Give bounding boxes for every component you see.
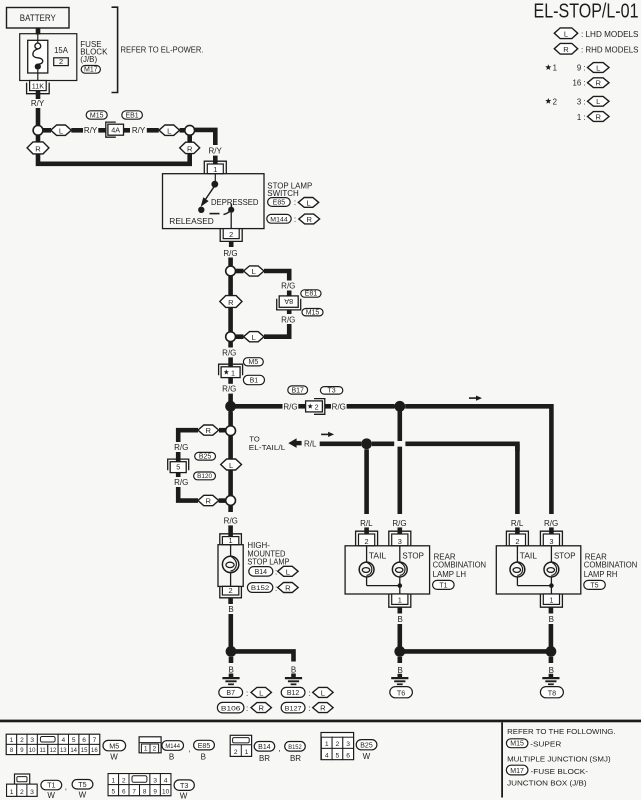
svg-text:,: , — [65, 782, 67, 791]
svg-text::: : — [308, 704, 310, 713]
svg-text:4: 4 — [325, 752, 329, 759]
svg-text:TAIL: TAIL — [520, 551, 538, 560]
svg-text:R/L: R/L — [304, 439, 317, 448]
svg-text:3 :: 3 : — [577, 97, 586, 106]
wire R/Y label segment — [71, 128, 83, 133]
svg-text:11K: 11K — [32, 82, 44, 91]
svg-text:R: R — [320, 704, 326, 713]
svg-text:6: 6 — [122, 788, 126, 795]
wire stub T8 ground — [549, 657, 554, 663]
wire R/G from J1 to *2 — [231, 404, 283, 409]
svg-text:R: R — [228, 298, 234, 307]
svg-text:R: R — [258, 704, 264, 713]
svg-text:B7: B7 — [226, 690, 235, 697]
svg-text:M15: M15 — [90, 112, 104, 119]
wire R/G up-loop to 8A connector — [264, 271, 289, 281]
svg-text:L: L — [564, 29, 568, 38]
junction J4 dot — [226, 646, 237, 657]
svg-text:R/G: R/G — [224, 516, 238, 525]
svg-text:R/G: R/G — [222, 385, 236, 394]
wire B from LH lamp — [397, 607, 402, 613]
switch released contact dot — [198, 207, 204, 213]
switch contact from pin 1 — [214, 174, 216, 181]
rear combination lamp RH box — [496, 546, 581, 594]
svg-text:EB1: EB1 — [125, 112, 138, 119]
connector detail M5 16-pin — [6, 734, 99, 754]
svg-text:B152: B152 — [288, 744, 302, 751]
junction J2 dot — [394, 401, 405, 412]
svg-text:11: 11 — [39, 748, 46, 754]
svg-text:2: 2 — [553, 97, 557, 106]
svg-text:R/G: R/G — [281, 282, 295, 291]
label M5 oval — [103, 740, 126, 750]
connector detail B25 6-pin — [321, 733, 354, 760]
svg-text:W: W — [110, 752, 118, 761]
svg-text:3: 3 — [30, 789, 34, 796]
svg-text:7: 7 — [132, 788, 136, 795]
svg-text:M5: M5 — [249, 359, 259, 366]
svg-text:TAIL: TAIL — [369, 551, 387, 560]
wire R/Y from 11K — [36, 91, 41, 99]
main wire C to D with hexagon R — [228, 276, 233, 332]
svg-text:3: 3 — [346, 741, 350, 748]
svg-text:4A: 4A — [111, 126, 120, 135]
label T5 oval — [584, 580, 606, 589]
svg-text:5: 5 — [72, 737, 76, 744]
svg-text:3: 3 — [30, 737, 34, 744]
svg-text:12: 12 — [50, 748, 57, 754]
ground T8 — [542, 677, 559, 679]
connector *2 — [314, 399, 325, 415]
svg-text:E81: E81 — [305, 291, 318, 298]
connector detail B14 2-pin — [230, 735, 251, 756]
connector label EB1 oval — [122, 111, 143, 120]
connector 5 — [168, 459, 189, 470]
svg-text:1: 1 — [144, 746, 148, 753]
svg-text:2: 2 — [122, 777, 126, 784]
svg-text:1 :: 1 : — [577, 113, 586, 122]
svg-text:R/L: R/L — [511, 519, 524, 528]
svg-text::: : — [275, 567, 277, 576]
arrow left to EL-TAIL/L — [288, 438, 296, 448]
svg-text:2: 2 — [20, 789, 24, 796]
svg-text:L: L — [167, 126, 171, 135]
svg-text:R/Y: R/Y — [31, 99, 45, 108]
svg-text:9 :: 9 : — [577, 64, 586, 73]
wire R/G to junction J1 — [228, 378, 233, 384]
svg-text:R/L: R/L — [360, 519, 373, 528]
rear combination lamp RH pin 3 — [540, 531, 562, 546]
connector 4A SMJ — [106, 122, 116, 137]
label B106 oval with R — [217, 702, 244, 713]
svg-text:B17: B17 — [291, 387, 304, 394]
svg-text:4: 4 — [164, 777, 168, 784]
svg-text:R/G: R/G — [392, 519, 406, 528]
node D junction circle — [226, 332, 236, 342]
svg-text:R/G: R/G — [283, 402, 297, 411]
svg-text:EL-STOP/L-01: EL-STOP/L-01 — [534, 0, 639, 23]
connector detail M144 2-pin — [139, 737, 161, 753]
high-mounted stop lamp pin 1 — [220, 534, 242, 545]
ground T6 — [391, 677, 408, 679]
svg-text:B: B — [398, 615, 403, 624]
svg-text:B127: B127 — [285, 706, 302, 713]
svg-text:T5: T5 — [590, 582, 598, 589]
rear combination lamp LH box — [345, 546, 430, 594]
direction arrow right small — [321, 433, 329, 435]
label B1 oval — [243, 375, 264, 384]
label T3 oval — [320, 387, 342, 395]
wire R/L continues crossing R/G — [372, 441, 394, 446]
svg-text:: RHD MODELS: : RHD MODELS — [581, 45, 639, 54]
svg-text:15A: 15A — [54, 46, 69, 55]
branch left hexagon R to connector 5 — [219, 428, 226, 433]
svg-text:L: L — [59, 126, 63, 135]
svg-text:M17: M17 — [84, 67, 98, 74]
svg-text:R/G: R/G — [222, 348, 236, 357]
svg-text::: : — [308, 689, 310, 698]
svg-text:T1: T1 — [439, 582, 447, 589]
svg-text:9: 9 — [153, 788, 157, 795]
legend RHD models hexagon R — [554, 43, 577, 54]
svg-text:13: 13 — [60, 748, 67, 754]
label B7 oval with L — [219, 687, 243, 697]
svg-text:M144: M144 — [270, 216, 288, 223]
svg-text:M15: M15 — [306, 309, 320, 316]
high-mounted stop lamp bulb — [230, 545, 232, 557]
svg-text:14: 14 — [70, 748, 77, 754]
svg-text:M144: M144 — [165, 743, 180, 750]
svg-text:16 :: 16 : — [572, 78, 585, 87]
label B12 oval with L — [281, 687, 305, 697]
rear combination lamp RH pin 1 — [540, 594, 562, 607]
svg-text:B: B — [201, 752, 206, 761]
svg-text:B: B — [549, 615, 554, 624]
label E85 oval — [194, 740, 215, 750]
label T1 oval — [41, 780, 62, 790]
label B127 oval with R — [281, 702, 305, 713]
svg-text:R/G: R/G — [223, 249, 237, 258]
svg-text:W: W — [79, 791, 87, 800]
label B14 oval with L — [249, 567, 273, 577]
LH internal ground bus — [367, 585, 400, 587]
svg-text:6: 6 — [346, 752, 350, 759]
svg-text:COMBINATION: COMBINATION — [584, 561, 638, 570]
svg-text:B152: B152 — [251, 585, 270, 592]
svg-text:B: B — [549, 666, 554, 675]
svg-text:R/Y: R/Y — [132, 126, 146, 135]
switch depressed contact — [224, 204, 232, 215]
svg-text:B14: B14 — [258, 744, 271, 751]
svg-text:BATTERY: BATTERY — [20, 13, 56, 23]
label B25 oval — [195, 452, 216, 460]
svg-text:W: W — [47, 791, 55, 800]
wire B from RH lamp — [549, 607, 554, 613]
refer to el-power bracket — [112, 7, 118, 92]
svg-text:M15: M15 — [510, 741, 524, 748]
svg-text:-SUPER: -SUPER — [530, 739, 562, 748]
svg-text:RELEASED: RELEASED — [169, 217, 214, 226]
svg-text:2: 2 — [365, 537, 369, 546]
node A junction circle — [33, 125, 43, 135]
rear combination lamp RH pin 2 — [506, 531, 528, 546]
svg-text:2: 2 — [234, 749, 238, 756]
separator line — [0, 720, 641, 723]
svg-text:B: B — [228, 605, 233, 614]
svg-text:1: 1 — [398, 596, 402, 605]
svg-text:E85: E85 — [198, 743, 211, 750]
label B152 oval — [285, 742, 306, 752]
branch to 8A: hexagon L — [236, 269, 244, 274]
hexagon R on right branch — [180, 142, 200, 153]
node F junction circle — [226, 496, 236, 506]
svg-text:8A: 8A — [284, 297, 293, 306]
svg-text:T1: T1 — [47, 781, 55, 790]
fuse block box M17 — [20, 34, 77, 81]
svg-text:,: , — [188, 745, 190, 754]
label T1 oval — [433, 580, 455, 589]
svg-text:B25: B25 — [360, 743, 373, 750]
hexagon L before node B — [159, 125, 180, 135]
wire R/G below connector 5 — [176, 473, 181, 477]
svg-text:T8: T8 — [548, 688, 556, 697]
svg-text:B12: B12 — [287, 690, 300, 697]
svg-text:T6: T6 — [397, 688, 405, 697]
switch dashed link — [210, 213, 220, 215]
hexagon L into node D — [244, 332, 264, 342]
wire B bus between J5 and J6 — [400, 649, 551, 654]
svg-text:(J/B): (J/B) — [80, 55, 97, 64]
connector *1 — [219, 364, 243, 375]
svg-text:1: 1 — [549, 596, 553, 605]
svg-text:LAMP LH: LAMP LH — [433, 570, 467, 579]
fuse block label M17 oval — [81, 66, 100, 74]
high-mounted stop lamp pin 2 — [220, 586, 242, 597]
svg-text:R/Y: R/Y — [84, 126, 98, 135]
fuse 15A — [28, 40, 48, 73]
svg-text::: : — [294, 198, 296, 207]
svg-text:L: L — [252, 267, 256, 276]
svg-text:5: 5 — [112, 788, 116, 795]
svg-text:1: 1 — [553, 64, 557, 73]
label M17 oval fuse block — [506, 765, 528, 775]
svg-text::: : — [246, 689, 248, 698]
battery — [7, 8, 70, 29]
stop lamp switch pin 2 — [220, 229, 242, 242]
svg-text:2: 2 — [59, 57, 63, 66]
rear combination lamp LH pin 2 — [356, 531, 378, 546]
svg-text:B14: B14 — [255, 569, 268, 576]
RH internal ground bus — [517, 585, 551, 587]
svg-text:L: L — [321, 688, 325, 697]
label M15 oval — [302, 309, 323, 317]
svg-text:B: B — [229, 665, 234, 674]
svg-text:MULTIPLE JUNCTION (SMJ): MULTIPLE JUNCTION (SMJ) — [507, 755, 611, 764]
wire R/L to junction J3 — [320, 441, 362, 446]
svg-text:: LHD MODELS: : LHD MODELS — [581, 30, 639, 39]
svg-text:L: L — [259, 688, 263, 697]
svg-text:4: 4 — [61, 737, 65, 744]
svg-text:R/G: R/G — [174, 443, 188, 452]
svg-text:BR: BR — [259, 754, 270, 763]
label T5 oval — [72, 780, 93, 790]
svg-text:16: 16 — [91, 748, 98, 754]
label M15 oval super multiple junction — [506, 739, 528, 748]
svg-text:R/G: R/G — [281, 315, 295, 324]
svg-text:W: W — [180, 792, 188, 800]
svg-text:R: R — [596, 79, 602, 88]
svg-text:REFER TO THE FOLLOWING.: REFER TO THE FOLLOWING. — [507, 727, 615, 736]
svg-text:L: L — [286, 567, 290, 576]
label B120 oval — [194, 472, 216, 480]
svg-text:1: 1 — [325, 741, 329, 748]
svg-text:1: 1 — [111, 777, 115, 784]
svg-text:5: 5 — [176, 463, 180, 472]
svg-text:R/G: R/G — [544, 519, 558, 528]
connector label M15 oval — [86, 111, 107, 120]
svg-text:R/G: R/G — [332, 402, 346, 411]
svg-text:,: , — [278, 744, 280, 753]
svg-text:COMBINATION: COMBINATION — [433, 561, 487, 570]
svg-text:L: L — [596, 97, 600, 106]
svg-text:R: R — [206, 426, 212, 435]
wire battery to fuse block — [36, 28, 41, 35]
svg-text:T5: T5 — [78, 780, 86, 789]
wire B branch right to ground B12 — [231, 651, 294, 661]
svg-text:B1: B1 — [250, 378, 259, 385]
stop lamp switch pin 1 — [204, 161, 226, 174]
connector 8A SMJ — [277, 299, 301, 310]
label B25 oval — [356, 740, 377, 750]
rear combination lamp LH pin 1 — [389, 594, 411, 607]
hexagon R on left branch — [27, 142, 49, 154]
svg-text:3: 3 — [549, 537, 553, 546]
svg-text:LAMP RH: LAMP RH — [584, 570, 618, 579]
main wire E to F with hexagon L — [228, 436, 233, 496]
svg-text:L: L — [306, 198, 310, 207]
fuse number 2 box — [54, 58, 69, 66]
svg-text:REFER TO EL-POWER.: REFER TO EL-POWER. — [121, 46, 204, 55]
svg-text:1: 1 — [10, 789, 14, 796]
wire J1 to node E — [228, 412, 233, 427]
svg-text:2: 2 — [152, 746, 156, 753]
switch connector M144 oval with R — [267, 214, 291, 223]
svg-text:E85: E85 — [273, 200, 286, 207]
svg-text:B: B — [291, 665, 296, 674]
wire stub right ground — [291, 674, 296, 678]
svg-text:B106: B106 — [221, 706, 241, 713]
hexagon R into node F — [198, 495, 219, 505]
svg-text:5: 5 — [336, 752, 340, 759]
svg-text:B: B — [169, 752, 174, 761]
label B17 oval — [288, 386, 308, 394]
legend note *1 pin 9 L — [545, 64, 551, 70]
connector detail T3 10-pin — [108, 774, 171, 796]
svg-text:B120: B120 — [197, 473, 212, 480]
junction J3 dot — [361, 438, 372, 449]
high-mounted stop lamp body — [218, 545, 243, 587]
svg-text:R/G: R/G — [174, 478, 188, 487]
svg-text:R: R — [563, 45, 569, 54]
wire stub T6 ground — [397, 657, 402, 663]
label B152 oval with R — [247, 583, 272, 593]
wire down J3 to LH tail pin — [364, 449, 369, 514]
ground B12/B127 — [285, 677, 302, 679]
svg-text:STOP: STOP — [554, 551, 576, 560]
wire down from J2 to LH stop pin — [397, 406, 402, 441]
junction J6 dot — [546, 646, 557, 657]
svg-text:SWITCH: SWITCH — [267, 189, 299, 198]
label T3 oval — [174, 780, 194, 791]
switch arm arrow to released — [205, 187, 214, 200]
svg-text:1: 1 — [10, 737, 14, 744]
svg-text:R: R — [596, 112, 602, 121]
svg-text:T3: T3 — [328, 388, 336, 395]
svg-text:R: R — [35, 145, 41, 154]
stop lamp switch box — [163, 174, 265, 229]
svg-text:R: R — [306, 215, 312, 224]
ground B7/B106 — [222, 677, 239, 679]
svg-text:M5: M5 — [109, 742, 119, 751]
connector 11K — [36, 81, 41, 83]
svg-text:2: 2 — [315, 402, 319, 411]
svg-text:2: 2 — [229, 586, 233, 595]
svg-text:BR: BR — [290, 754, 301, 763]
wire R/G to *1 — [228, 342, 233, 348]
svg-text:2: 2 — [515, 537, 519, 546]
svg-text:EL-TAIL/L: EL-TAIL/L — [249, 443, 285, 452]
svg-text:STOP: STOP — [402, 551, 424, 560]
wire R/G below switch — [229, 241, 234, 247]
label E81 oval — [301, 290, 321, 298]
wire R/G from *2 to J2 — [325, 404, 331, 409]
wire R/G to high-mounted stop lamp — [228, 505, 233, 512]
connector detail T1/T5 3-pin — [15, 774, 30, 784]
svg-text:JUNCTION BOX (J/B): JUNCTION BOX (J/B) — [507, 778, 587, 787]
hexagon L on top path — [43, 128, 51, 133]
svg-text::: : — [294, 215, 296, 224]
label M144 oval — [162, 741, 184, 751]
refer-to-following separator — [501, 722, 503, 797]
node E junction circle — [226, 426, 236, 436]
svg-text:1: 1 — [231, 368, 235, 377]
svg-text:10: 10 — [29, 748, 36, 754]
svg-text:L: L — [596, 63, 600, 72]
svg-text:STOP LAMP: STOP LAMP — [247, 557, 289, 566]
svg-text:L: L — [252, 333, 256, 342]
node B junction circle — [185, 125, 195, 135]
svg-text:7: 7 — [93, 737, 97, 744]
direction arrow right — [469, 397, 477, 399]
svg-text:3: 3 — [153, 777, 157, 784]
legend LHD models hexagon L — [554, 28, 577, 39]
svg-text:M17: M17 — [510, 768, 524, 775]
switch connector E85 oval with L — [268, 198, 291, 207]
svg-text:R: R — [285, 584, 291, 593]
node C junction circle — [226, 266, 236, 276]
svg-text:1: 1 — [245, 749, 249, 756]
svg-text:2: 2 — [336, 741, 340, 748]
wire stub left ground — [229, 657, 234, 663]
svg-text:8: 8 — [143, 788, 147, 795]
wire R/G below 8A — [287, 310, 292, 314]
svg-text::: : — [275, 584, 277, 593]
svg-text:L: L — [229, 461, 233, 470]
svg-text:R: R — [206, 497, 212, 506]
svg-text:B: B — [398, 666, 403, 675]
svg-text:1: 1 — [229, 536, 233, 545]
svg-text::: : — [246, 704, 248, 713]
